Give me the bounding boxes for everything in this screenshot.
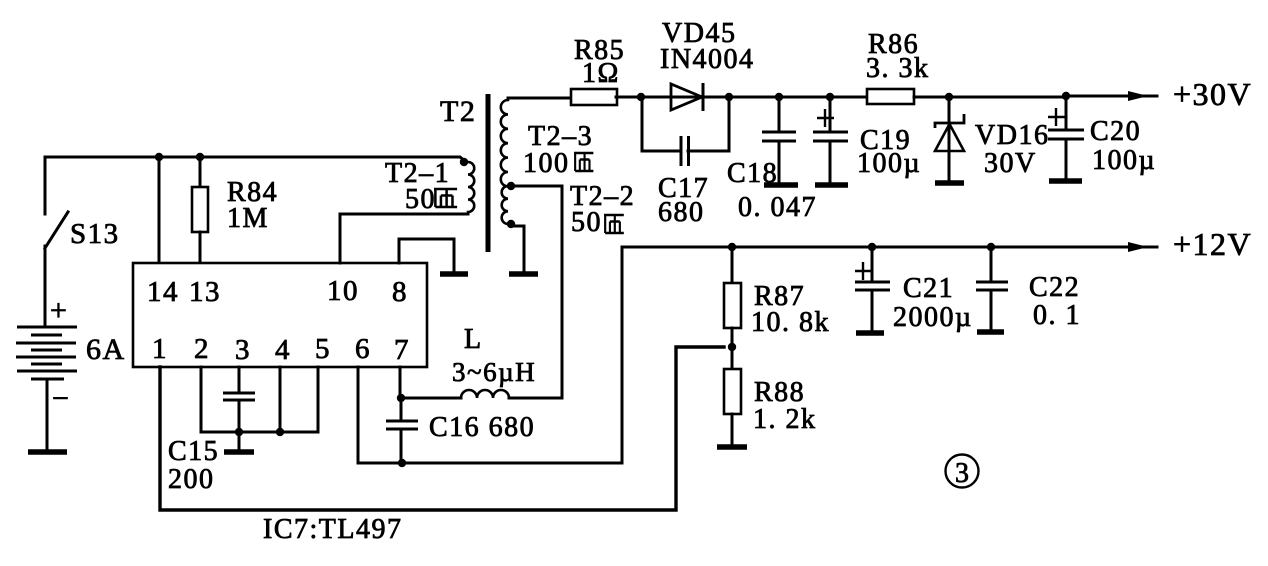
capacitor C15 200 xyxy=(168,367,255,495)
svg-text:C21: C21 xyxy=(903,273,954,304)
svg-text:100µ: 100µ xyxy=(1092,145,1156,176)
node +12V rail R87 xyxy=(728,243,736,251)
ground battery xyxy=(28,449,67,455)
transformer T2 core xyxy=(440,94,488,252)
node T2-2 bottom xyxy=(507,220,515,228)
svg-text:2: 2 xyxy=(194,333,210,365)
svg-text:IN4004: IN4004 xyxy=(660,44,755,75)
label +12V xyxy=(1173,226,1252,262)
svg-text:6A: 6A xyxy=(86,333,126,366)
svg-text:0. 1: 0. 1 xyxy=(1033,300,1081,331)
label IC7:TL497 xyxy=(263,514,403,545)
svg-text:IC7:TL497: IC7:TL497 xyxy=(263,514,403,545)
wire top rail from switch to T2-1 xyxy=(45,157,466,162)
svg-text:−: − xyxy=(52,382,70,415)
node rail C18 xyxy=(775,93,783,101)
svg-text:6: 6 xyxy=(355,333,371,365)
ground VD16 xyxy=(935,180,964,186)
wire pin 7 xyxy=(399,367,402,397)
svg-text:50: 50 xyxy=(405,184,436,215)
匝 glyph for T2-1 xyxy=(434,189,457,207)
node bus pin 3 xyxy=(235,428,243,436)
svg-text:10. 8k: 10. 8k xyxy=(751,307,830,338)
svg-text:3: 3 xyxy=(235,334,251,366)
node top rail R84 xyxy=(196,153,204,161)
svg-text:1M: 1M xyxy=(227,203,269,234)
inductor L 3~6uH xyxy=(401,324,562,398)
wire +30V rail arrow xyxy=(1066,91,1157,101)
ground C20 xyxy=(1049,178,1082,184)
wire pin 5 to bus xyxy=(280,367,318,432)
svg-text:14: 14 xyxy=(147,276,179,308)
svg-text:680: 680 xyxy=(658,197,705,228)
capacitor C21 2000u xyxy=(855,247,973,333)
wire pin 14 riser xyxy=(158,157,161,263)
svg-text:30V: 30V xyxy=(984,148,1037,179)
svg-text:3~6µH: 3~6µH xyxy=(452,357,536,387)
wire pin 2 to bus xyxy=(201,367,280,432)
svg-text:4: 4 xyxy=(275,334,291,366)
battery 6A xyxy=(16,294,126,415)
wire pin 4 xyxy=(279,367,282,432)
ground pin 8 xyxy=(440,271,468,277)
svg-text:+12V: +12V xyxy=(1173,226,1252,262)
diode VD45 IN4004 xyxy=(641,18,755,111)
svg-text:1. 2k: 1. 2k xyxy=(753,404,817,435)
wire rail C19 to R86 xyxy=(830,96,867,99)
wire C15 node to ground xyxy=(238,432,241,450)
svg-text:S13: S13 xyxy=(70,218,120,250)
匝 glyph for T2-2 xyxy=(604,215,624,233)
wire pin 1 feedback to divider xyxy=(160,347,724,510)
resistor R86 3.3k xyxy=(866,29,949,104)
resistor R85 1 ohm xyxy=(571,35,641,105)
node T2 tap junction xyxy=(507,182,515,190)
svg-text:0. 047: 0. 047 xyxy=(738,192,817,223)
wire pin 10 to T2-1 bottom xyxy=(340,214,468,263)
wire rail VD16 to C20 xyxy=(949,96,1066,99)
capacitor C20 100u xyxy=(1048,96,1156,179)
svg-text:+: + xyxy=(50,294,68,327)
node top rail pin14 xyxy=(155,153,163,161)
zener diode VD16 30V xyxy=(935,97,1049,181)
svg-text:2000µ: 2000µ xyxy=(893,302,973,333)
wire T2 tap to riser xyxy=(511,186,562,398)
svg-text:C20: C20 xyxy=(1090,116,1141,147)
svg-text:200: 200 xyxy=(168,464,215,495)
wire +12V rail xyxy=(622,242,1157,252)
node rail C20 xyxy=(1062,92,1070,100)
svg-text:13: 13 xyxy=(189,276,221,308)
svg-text:100µ: 100µ xyxy=(857,148,921,179)
svg-text:3. 3k: 3. 3k xyxy=(866,53,930,84)
svg-text:+30V: +30V xyxy=(1173,76,1252,112)
ground C21 xyxy=(856,330,884,336)
wire switch to battery xyxy=(44,246,47,327)
node +12V rail C21 xyxy=(868,243,876,251)
capacitor C18 0.047 xyxy=(727,97,817,223)
node C16 bottom xyxy=(398,459,406,467)
transformer winding T2-3 100 turns xyxy=(501,98,593,186)
wire rail VD45 to C18 xyxy=(729,96,779,99)
wire battery to ground xyxy=(46,379,49,450)
ground T2-2 xyxy=(509,271,538,277)
svg-text:3: 3 xyxy=(955,458,971,489)
ground C19 xyxy=(815,182,848,188)
ground C22 xyxy=(977,329,1004,335)
svg-text:10: 10 xyxy=(327,275,359,307)
node rail VD45 anode xyxy=(637,93,645,101)
node bus pin 4 xyxy=(276,428,284,436)
wire rail C18 to C19 xyxy=(779,96,830,99)
resistor R87 10.8k xyxy=(724,247,830,347)
svg-text:T2: T2 xyxy=(440,95,476,128)
svg-text:5: 5 xyxy=(315,333,331,365)
wire pin 8 to ground xyxy=(399,239,454,272)
node +12V rail C22 xyxy=(987,243,995,251)
svg-text:1: 1 xyxy=(152,333,168,365)
transformer winding T2-1 50 turns xyxy=(385,158,474,215)
svg-text:C22: C22 xyxy=(1029,272,1080,303)
circled figure number 3 xyxy=(946,455,979,490)
svg-text:C16 680: C16 680 xyxy=(429,412,535,443)
transformer winding T2-2 50 turns xyxy=(502,181,635,238)
ground R88 xyxy=(717,444,747,450)
svg-text:50: 50 xyxy=(571,207,602,238)
wire T2-2 bottom to ground xyxy=(511,226,524,272)
resistor R84 1M xyxy=(192,157,278,263)
wire switch upper stub xyxy=(44,157,47,214)
capacitor C22 0.1 xyxy=(976,247,1081,331)
svg-text:1Ω: 1Ω xyxy=(582,58,620,89)
capacitor C19 100u xyxy=(813,97,921,183)
wire rail to diode xyxy=(641,96,671,99)
capacitor C17 680 xyxy=(642,97,729,228)
svg-text:100: 100 xyxy=(523,148,570,179)
capacitor C16 680 xyxy=(386,398,535,463)
node rail VD45 cathode xyxy=(725,93,733,101)
node rail VD16 xyxy=(945,93,953,101)
wire pin 6 xyxy=(358,367,402,463)
匝 glyph for T2-3 xyxy=(574,153,593,171)
node rail C19 xyxy=(826,93,834,101)
op-amp IC7 TL497 box xyxy=(133,263,427,367)
svg-text:C15: C15 xyxy=(168,436,219,467)
svg-text:L: L xyxy=(464,324,483,355)
svg-text:7: 7 xyxy=(394,334,410,366)
node divider junction xyxy=(728,343,736,351)
wire +12V riser to LC node xyxy=(402,247,622,463)
ground C18 xyxy=(764,182,798,188)
node pin 7 L C16 xyxy=(397,394,405,402)
svg-text:VD16: VD16 xyxy=(975,120,1049,151)
resistor R88 1.2k xyxy=(724,347,817,445)
switch S13 xyxy=(45,212,120,250)
ground C15 xyxy=(224,449,254,455)
svg-text:8: 8 xyxy=(392,276,408,308)
label +30V xyxy=(1173,76,1252,112)
